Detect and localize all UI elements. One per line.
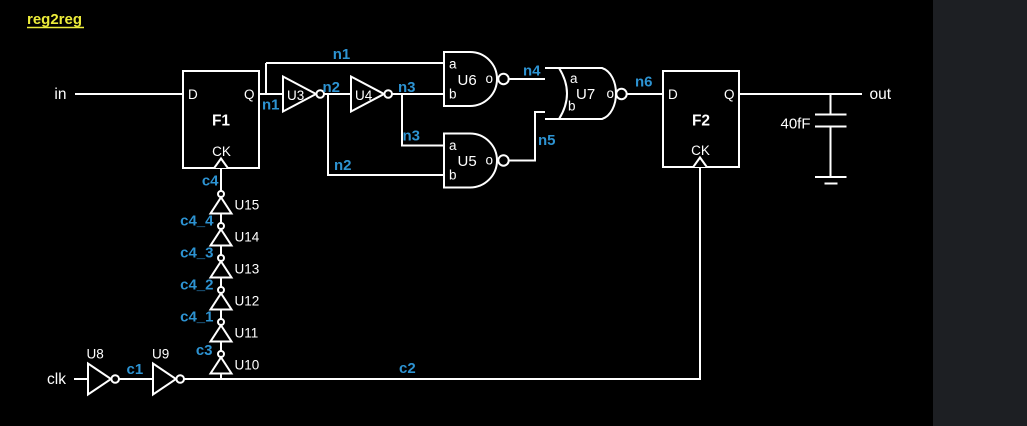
svg-text:n4: n4 <box>523 63 541 80</box>
svg-text:n2: n2 <box>323 79 341 96</box>
nand U6 <box>444 52 509 106</box>
svg-text:U15: U15 <box>235 198 260 213</box>
wire n5 U5 to U7 b <box>509 112 564 161</box>
svg-text:40fF: 40fF <box>780 116 810 133</box>
inverter U9 <box>152 347 184 395</box>
svg-text:U5: U5 <box>458 153 477 170</box>
svg-text:U11: U11 <box>235 326 259 341</box>
svg-text:U8: U8 <box>87 347 104 362</box>
wire c1 U8 to U9 <box>119 378 153 380</box>
svg-text:U9: U9 <box>152 347 169 362</box>
svg-text:o: o <box>486 153 494 168</box>
svg-text:U14: U14 <box>235 230 260 245</box>
svg-text:D: D <box>668 87 678 102</box>
svg-text:F1: F1 <box>212 113 230 130</box>
svg-text:n1: n1 <box>262 97 280 114</box>
wire c4_3 <box>220 246 222 256</box>
svg-text:c4_2: c4_2 <box>180 277 213 294</box>
inverter U4 <box>351 77 392 112</box>
wire F1 CK to U15 <box>220 168 222 191</box>
wire F1 Q to U3 <box>259 93 283 95</box>
nand U5 <box>444 134 509 188</box>
wire U3 to U4 <box>324 93 351 95</box>
svg-text:F2: F2 <box>692 113 710 130</box>
svg-text:CK: CK <box>212 144 231 159</box>
inverter U14 <box>211 223 260 246</box>
wire c4_2 <box>220 278 222 288</box>
title reg2reg <box>27 11 84 28</box>
nor U7 <box>545 68 627 119</box>
wire F2 Q to out <box>739 93 862 95</box>
inverter U11 <box>211 319 259 342</box>
flip-flop F1 <box>183 71 259 168</box>
inverter U3 <box>283 77 324 112</box>
svg-text:Q: Q <box>244 87 255 102</box>
wire n1 vertical riser <box>265 63 267 94</box>
svg-text:CK: CK <box>691 143 710 158</box>
svg-text:out: out <box>870 86 892 103</box>
ground <box>815 177 847 184</box>
svg-text:a: a <box>570 71 578 86</box>
wire n3 branch down <box>402 94 444 146</box>
svg-text:clk: clk <box>47 371 66 388</box>
wire clk to U8 <box>74 378 88 380</box>
wire n4 U6 to U7 a <box>509 78 565 80</box>
svg-text:in: in <box>54 86 66 103</box>
svg-text:o: o <box>486 71 494 86</box>
svg-text:b: b <box>449 87 457 102</box>
svg-text:D: D <box>188 87 198 102</box>
wire c2 run to F2 CK <box>184 167 700 379</box>
capacitor 40fF <box>780 94 846 177</box>
svg-text:c2: c2 <box>399 360 416 377</box>
wire U10 to clk run <box>220 374 222 380</box>
wire U4 to U6 b <box>392 93 444 95</box>
flip-flop F2 <box>663 71 739 167</box>
inverter U15 <box>211 191 260 214</box>
inverter U13 <box>211 255 260 278</box>
wire c4_4 <box>220 214 222 224</box>
inverter U12 <box>211 287 260 310</box>
svg-text:c4_3: c4_3 <box>180 245 213 262</box>
svg-text:n2: n2 <box>334 157 352 174</box>
inverter U10 <box>211 351 260 374</box>
svg-text:a: a <box>449 138 457 153</box>
svg-text:Q: Q <box>724 87 735 102</box>
wire c4_1 <box>220 310 222 320</box>
svg-text:n1: n1 <box>333 46 351 63</box>
wire in to F1 D <box>75 93 183 95</box>
svg-text:reg2reg: reg2reg <box>27 11 82 28</box>
svg-text:c1: c1 <box>127 361 144 378</box>
inverter U8 <box>87 347 119 395</box>
svg-text:c4_1: c4_1 <box>180 309 213 326</box>
svg-text:b: b <box>449 168 457 183</box>
svg-text:U12: U12 <box>235 294 260 309</box>
svg-text:a: a <box>449 57 457 72</box>
svg-text:U6: U6 <box>458 72 477 89</box>
wire n6 U7 to F2 D <box>627 93 663 95</box>
svg-text:U13: U13 <box>235 262 260 277</box>
svg-text:n6: n6 <box>635 74 653 91</box>
svg-text:c4_4: c4_4 <box>180 213 214 230</box>
wire c3 <box>220 342 222 352</box>
svg-text:U3: U3 <box>287 88 304 103</box>
svg-text:U7: U7 <box>576 86 595 103</box>
svg-text:n3: n3 <box>403 128 421 145</box>
svg-text:o: o <box>607 86 615 101</box>
wire n1 top run <box>266 62 444 64</box>
svg-text:c3: c3 <box>196 342 213 359</box>
svg-text:U4: U4 <box>355 88 373 103</box>
svg-text:b: b <box>568 99 576 114</box>
svg-text:c4: c4 <box>202 173 219 190</box>
svg-text:n3: n3 <box>398 79 416 96</box>
svg-text:n5: n5 <box>538 132 556 149</box>
wire n2 branch down <box>328 94 444 175</box>
svg-text:U10: U10 <box>235 358 260 373</box>
